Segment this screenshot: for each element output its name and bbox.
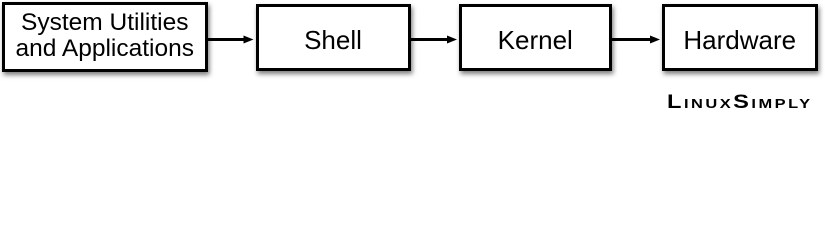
arrow box1 to Shell [206,36,254,44]
box System Utilities and Applications [2,2,208,72]
box Hardware [662,4,819,71]
arrow Shell to Kernel [409,36,457,44]
arrow Kernel to Hardware [611,36,661,44]
logo LinuxSimply wordmark [667,96,813,110]
box Kernel [459,4,613,71]
box Shell [256,4,411,71]
